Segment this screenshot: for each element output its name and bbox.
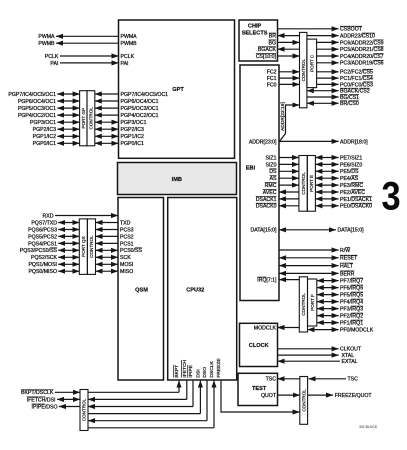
svg-text:PGP6/OC4/OC1: PGP6/OC4/OC1 [18, 99, 56, 105]
wire FC1 [279, 77, 300, 79]
svg-text:TEST: TEST [252, 386, 267, 392]
block CLOCK [240, 323, 278, 366]
wire PQS3/PCS0/SS PORT QS to QSM [96, 249, 119, 251]
pin label PC0/FC0/CS3 (external) [340, 82, 373, 88]
wire AS EBI to PORT E control [279, 177, 299, 179]
svg-text:PF3/IRQ3: PF3/IRQ3 [340, 307, 363, 313]
pin label PF1/IRQ1 (external) [340, 320, 363, 326]
wire BG/CS1 [307, 96, 339, 98]
svg-text:EBI: EBI [246, 166, 256, 172]
pin label DS (EBI) [269, 169, 277, 175]
pin label PC5/ADDR21/CS8 (external) [340, 47, 384, 53]
wire PC5/ADDR21/CS8 [317, 48, 339, 50]
block CPU32 [168, 198, 237, 381]
wire TSC external to control [309, 378, 346, 380]
svg-text:PGP3/OC1: PGP3/OC1 [30, 120, 56, 126]
pin label CS[10:0] (chip selects) [256, 54, 277, 60]
block IMB (inter-module bus) [118, 163, 237, 195]
pin label BKPT (CPU32, rotated) [174, 365, 180, 378]
svg-text:PQS1/MOSI: PQS1/MOSI [28, 262, 57, 268]
svg-text:PC4/ADDR20/CS7: PC4/ADDR20/CS7 [340, 54, 384, 60]
wire IPIPE stub into CPU32 [192, 381, 194, 407]
svg-text:PC0/FC0/CS3: PC0/FC0/CS3 [340, 82, 373, 88]
svg-text:CLKOUT: CLKOUT [340, 347, 362, 353]
svg-text:IMB: IMB [172, 177, 182, 183]
svg-text:SCK: SCK [120, 255, 131, 261]
pin label BGACK (chip selects) [258, 47, 277, 53]
svg-text:PF6/IRQ6: PF6/IRQ6 [340, 286, 363, 292]
wire PF7/IRQ7 [317, 280, 339, 282]
wire CSBOOT [278, 28, 339, 30]
svg-text:3: 3 [382, 173, 401, 218]
wire BGACK [278, 48, 300, 50]
svg-text:PQS2/SCK: PQS2/SCK [31, 255, 57, 261]
svg-text:PWMA: PWMA [121, 34, 138, 40]
wire DSCLK stub into CPU32 [213, 381, 215, 428]
svg-text:CONTROL: CONTROL [301, 293, 306, 316]
pin label HALT (external) [340, 263, 354, 269]
svg-text:IFETCH/DSI: IFETCH/DSI [27, 397, 56, 403]
svg-text:BERR: BERR [340, 271, 355, 277]
wire FREEZE/QUOT out [308, 394, 333, 396]
wire PGP3/OC1 PORT GP to GPT [95, 121, 119, 123]
svg-text:IPIPE: IPIPE [188, 364, 194, 377]
svg-text:CONTROL: CONTROL [89, 235, 94, 258]
svg-text:PCS0/SS: PCS0/SS [120, 248, 142, 254]
wire BKPT horizontal run [88, 391, 179, 393]
wire IFETCH horizontal run [88, 398, 187, 400]
svg-text:PQS3/PCS0/SS: PQS3/PCS0/SS [20, 248, 58, 254]
wire PC4/ADDR20/CS7 [317, 55, 339, 57]
svg-text:DSACK1: DSACK1 [256, 197, 277, 203]
block PORT F [308, 279, 317, 326]
svg-text:PE5/DS: PE5/DS [340, 169, 359, 175]
wire BKPT/DSCLK to BDM CONTROL [55, 391, 80, 393]
wire PWMA [56, 35, 119, 37]
svg-text:PWMB: PWMB [38, 41, 55, 47]
svg-text:PCLK: PCLK [121, 54, 135, 60]
pin label PQS3/PCS0/SS (external) [20, 248, 58, 254]
pin label BG (chip selects) [269, 40, 277, 46]
pin label BR/CS0 (external) [340, 101, 359, 107]
svg-text:XTAL: XTAL [342, 353, 355, 359]
wire DSI stub into CPU32 [199, 381, 201, 414]
svg-text:PF7/IRQ7: PF7/IRQ7 [340, 279, 363, 285]
svg-text:PF2/IRQ2: PF2/IRQ2 [340, 314, 363, 320]
label PORT C (rotated) [309, 54, 314, 72]
wire RXD to QSM [55, 215, 118, 217]
pin label PC2/FC2/CS5 (external) [340, 69, 373, 75]
svg-text:PCS2: PCS2 [120, 234, 134, 240]
svg-text:TSC: TSC [348, 377, 359, 383]
wire PC0/FC0/CS3 [317, 83, 339, 85]
svg-text:PGP7/IC4/OC5/OC1: PGP7/IC4/OC5/OC1 [121, 92, 169, 98]
svg-text:QSM: QSM [135, 288, 148, 294]
svg-text:PQS7/TXD: PQS7/TXD [31, 220, 57, 226]
wire PQS0/MISO PORT QS to QSM [96, 270, 119, 272]
wire IPIPE/DSO from BDM CONTROL [59, 406, 80, 408]
svg-text:PE0/DSACK0: PE0/DSACK0 [340, 204, 372, 210]
pin label PQS3/PCS0/SS (QSM) [120, 248, 142, 254]
wire PQS6/PCS3 to PORT QS [58, 229, 79, 231]
svg-text:PE7/SIZ1: PE7/SIZ1 [340, 155, 362, 161]
block EBI (external bus interface) [240, 65, 279, 301]
wire DSCLK horizontal run [88, 427, 214, 429]
wire PF1/IRQ1 [317, 322, 339, 324]
label PORT F (rotated) [310, 294, 315, 311]
svg-text:PC6/ADDR22/CS9: PC6/ADDR22/CS9 [340, 40, 384, 46]
svg-text:PGP7/IC4/OC5/OC1: PGP7/IC4/OC5/OC1 [8, 92, 56, 98]
block PORT E CONTROL [299, 156, 307, 212]
pin label IPIPE/DSO (external) [32, 404, 58, 410]
svg-text:PQS5/PCS2: PQS5/PCS2 [28, 234, 57, 240]
wire ADDR[18:0] bus out [279, 140, 339, 142]
wire HALT [279, 265, 339, 267]
wire PC1/FC1/CS4 [317, 77, 339, 79]
svg-text:BG/CS1: BG/CS1 [340, 95, 359, 101]
pin label BG/CS1 (external) [340, 95, 359, 101]
svg-text:PGP3/OC1: PGP3/OC1 [121, 120, 147, 126]
svg-text:SIZ1: SIZ1 [266, 155, 277, 161]
svg-text:HALT: HALT [340, 264, 354, 270]
wire PGP3/OC1 to PORT GP [57, 121, 79, 123]
svg-text:CLOCK: CLOCK [249, 343, 269, 349]
pin label DSACK0 (EBI) [256, 203, 277, 209]
svg-text:PE1/DSACK1: PE1/DSACK1 [340, 197, 372, 203]
pin label IRQ[7:1] (EBI) [257, 277, 277, 283]
wire XTAL [278, 354, 339, 356]
wire PAI [60, 62, 119, 64]
block PORT GP CONTROL [87, 91, 95, 146]
wire PF0/MODCLK [308, 329, 339, 331]
svg-text:PCS3: PCS3 [120, 227, 134, 233]
wire IFETCH/DSI to BDM CONTROL [57, 398, 80, 400]
pin label PF6/IRQ6 (external) [340, 285, 363, 291]
wire FC2 [279, 71, 300, 73]
svg-text:PGP0/IC1: PGP0/IC1 [121, 141, 144, 147]
svg-text:PC3/ADDR19/CS6: PC3/ADDR19/CS6 [340, 61, 384, 67]
wire QUOT to control [278, 394, 300, 396]
svg-text:PGP6/OC4/OC1: PGP6/OC4/OC1 [121, 99, 159, 105]
svg-text:PGP0/IC1: PGP0/IC1 [33, 141, 56, 147]
svg-text:CSBOOT: CSBOOT [340, 27, 363, 33]
wire SIZ0 EBI to PORT E control [279, 163, 299, 165]
wire PF6/IRQ6 [317, 287, 339, 289]
svg-text:TSC: TSC [266, 377, 277, 383]
label PORT GP (rotated) [81, 108, 86, 129]
wire PE0/DSACK0 [315, 205, 338, 207]
svg-text:PGP4/OC2/OC1: PGP4/OC2/OC1 [18, 113, 56, 119]
wire PWMB [56, 42, 119, 44]
wire FC0 [279, 83, 300, 85]
label CONTROL of PORT F (rotated) [301, 293, 306, 316]
svg-text:CONTROL: CONTROL [301, 58, 306, 81]
svg-text:DATA[15:0]: DATA[15:0] [338, 228, 365, 234]
svg-text:RXD: RXD [43, 213, 54, 219]
pin label PC3/ADDR19/CS6 (external) [340, 60, 384, 66]
pin label PF4/IRQ4 (external) [340, 299, 363, 305]
svg-text:PE2/AVEC: PE2/AVEC [340, 190, 365, 196]
svg-text:PORT E: PORT E [309, 175, 314, 192]
svg-text:CONTROL: CONTROL [89, 107, 94, 130]
svg-text:IRQ[7:1]: IRQ[7:1] [257, 278, 277, 284]
wire RESET [279, 257, 339, 259]
svg-text:ADDR[23:0]: ADDR[23:0] [249, 139, 277, 145]
pin label R/W (external) [340, 248, 350, 254]
svg-text:BR: BR [269, 34, 276, 40]
svg-text:PE6/SIZ0: PE6/SIZ0 [340, 162, 362, 168]
svg-text:CPU32: CPU32 [186, 288, 204, 294]
wire PGP7/IC4/OC5/OC1 PORT GP to GPT [95, 93, 119, 95]
wire PF2/IRQ2 [317, 315, 339, 317]
pin label DSACK1 (EBI) [256, 196, 277, 202]
wire PC6/ADDR22/CS9 [317, 41, 339, 43]
wire PQS0/MISO to PORT QS [58, 270, 79, 272]
svg-text:PGP5/OC3/OC1: PGP5/OC3/OC1 [121, 106, 159, 112]
wire PGP5/OC3/OC1 PORT GP to GPT [95, 107, 119, 109]
svg-text:PQS4/PCS1: PQS4/PCS1 [28, 241, 57, 247]
block PORT C CONTROL [300, 32, 307, 107]
svg-text:BKPT/DSCLK: BKPT/DSCLK [21, 390, 54, 396]
wire PE4/AS [315, 177, 338, 179]
svg-text:BGACK: BGACK [258, 47, 277, 53]
block GPT (general purpose timer) [119, 20, 235, 158]
wire DSACK0 PORT E control to EBI [279, 205, 299, 207]
svg-text:DSACK0: DSACK0 [256, 204, 277, 210]
wire PQS4/PCS1 to PORT QS [58, 242, 79, 244]
wire PGP0/IC1 to PORT GP [57, 142, 79, 144]
svg-text:PGP4/OC2/OC1: PGP4/OC2/OC1 [121, 113, 159, 119]
svg-text:CONTROL: CONTROL [82, 398, 87, 421]
wire IFETCH stub into CPU32 [186, 381, 188, 400]
svg-text:RMC: RMC [265, 183, 277, 189]
svg-text:PAI: PAI [121, 61, 129, 67]
label CONTROL of PORT GP (rotated) [89, 107, 94, 130]
block PORT C [307, 39, 317, 88]
pin label PF2/IRQ2 (external) [340, 313, 363, 319]
svg-text:PC1/FC1/CS4: PC1/FC1/CS4 [340, 76, 373, 82]
wire DSI horizontal run [88, 413, 200, 415]
wire PE7/SIZ1 [315, 157, 338, 159]
svg-text:QUOT: QUOT [261, 393, 277, 399]
wire PQS1/MOSI to PORT QS [58, 263, 79, 265]
wire DSO stub into CPU32 [206, 381, 208, 421]
svg-text:IPIPE/DSO: IPIPE/DSO [32, 404, 58, 410]
wire PQS3/PCS0/SS to PORT QS [58, 249, 79, 251]
svg-text:PQS0/MISO: PQS0/MISO [28, 269, 57, 275]
wire DS EBI to PORT E control [279, 170, 299, 172]
svg-text:MISO: MISO [120, 269, 133, 275]
wire PE5/DS [315, 170, 338, 172]
wire PQS5/PCS2 to PORT QS [58, 235, 79, 237]
label PORT E (rotated) [309, 175, 314, 192]
svg-text:GPT: GPT [172, 87, 184, 93]
block BDM CONTROL [80, 390, 88, 431]
svg-text:FC0: FC0 [267, 82, 277, 88]
wire CS[10:0] [278, 55, 300, 57]
svg-text:BR/CS0: BR/CS0 [340, 101, 359, 107]
wire PQS6/PCS3 PORT QS to QSM [96, 229, 119, 231]
wire MODCLK from PORT F control [278, 327, 300, 329]
wire PGP5/OC3/OC1 to PORT GP [57, 107, 79, 109]
svg-text:PWMA: PWMA [38, 34, 55, 40]
svg-text:PE3/RMC: PE3/RMC [340, 183, 363, 189]
pin label PC6/ADDR22/CS9 (external) [340, 40, 384, 46]
svg-text:DSI: DSI [196, 369, 202, 377]
svg-text:AS: AS [270, 176, 277, 182]
wire PC2/FC2/CS5 [317, 71, 339, 73]
pin label PC4/ADDR20/CS7 (external) [340, 54, 384, 60]
svg-text:PGP1/IC2: PGP1/IC2 [121, 134, 144, 140]
wire DSO horizontal run [88, 420, 207, 422]
label PORT QS (rotated) [81, 236, 86, 257]
svg-text:DSO: DSO [202, 367, 208, 378]
svg-text:R/W: R/W [340, 248, 350, 254]
wire PE1/DSACK1 [315, 198, 338, 200]
svg-text:DATA[15:0]: DATA[15:0] [250, 228, 277, 234]
wire PF4/IRQ4 [317, 301, 339, 303]
wire PGP4/OC2/OC1 PORT GP to GPT [95, 114, 119, 116]
svg-text:AVEC: AVEC [263, 190, 277, 196]
wire PQS7/TXD to PORT QS [58, 222, 79, 224]
svg-text:PORT F: PORT F [310, 294, 315, 311]
svg-text:PF5/IRQ5: PF5/IRQ5 [340, 293, 363, 299]
wire PQS7/TXD PORT QS to QSM [96, 222, 119, 224]
pin label BR (chip selects) [269, 33, 276, 39]
wire PGP4/OC2/OC1 to PORT GP [57, 114, 79, 116]
wire ADDR23/CS10 [307, 35, 339, 37]
wire IRQ[7:1] to PORT F control [279, 279, 299, 281]
svg-text:PORT QS: PORT QS [81, 236, 86, 257]
svg-text:PF1/IRQ1: PF1/IRQ1 [340, 321, 363, 327]
svg-text:CONTROL: CONTROL [301, 389, 306, 412]
svg-text:PORT C: PORT C [309, 54, 314, 72]
wire RMC EBI to PORT E control [279, 184, 299, 186]
svg-text:ADDR[18:0]: ADDR[18:0] [340, 139, 368, 145]
pin label AVEC (EBI) [263, 190, 277, 196]
svg-text:MOSI: MOSI [120, 262, 133, 268]
pin label RESET (external) [340, 255, 358, 261]
pin label IPIPE (CPU32, rotated) [188, 364, 194, 377]
block TEST CONTROL [300, 377, 308, 425]
wire PE3/RMC [315, 184, 338, 186]
svg-text:332 BLOCK: 332 BLOCK [359, 425, 378, 429]
pin label AS (EBI) [270, 176, 277, 182]
svg-text:FC1: FC1 [267, 76, 277, 82]
wire BERR [279, 272, 339, 274]
svg-text:PGP2/IC3: PGP2/IC3 [121, 127, 144, 133]
wire PQS1/MOSI PORT QS to QSM [96, 263, 119, 265]
block PORT GP [80, 91, 87, 146]
pin label PF7/IRQ7 (external) [340, 278, 363, 284]
pin label PE3/RMC (external) [340, 183, 363, 189]
svg-text:CS[10:0]: CS[10:0] [256, 54, 277, 60]
pin label PF3/IRQ3 (external) [340, 306, 363, 312]
wire PGP2/IC3 PORT GP to GPT [95, 128, 119, 130]
pin label RMC (EBI) [265, 183, 277, 189]
wire PE2/AVEC [315, 191, 338, 193]
block TEST [238, 373, 278, 405]
svg-text:DSCLK: DSCLK [209, 361, 215, 378]
label TEST CONTROL (rotated) [301, 389, 306, 412]
wire DSACK1 PORT E control to EBI [279, 198, 299, 200]
svg-text:CONTROL: CONTROL [301, 172, 306, 195]
svg-text:PGP1/IC2: PGP1/IC2 [33, 134, 56, 140]
label CONTROL of PORT E (rotated) [301, 172, 306, 195]
pin label PE5/DS (external) [340, 169, 359, 175]
wire PF5/IRQ5 [317, 294, 339, 296]
wire PE6/SIZ0 [315, 163, 338, 165]
wire PQS5/PCS2 PORT QS to QSM [96, 235, 119, 237]
wire PQS4/PCS1 PORT QS to QSM [96, 242, 119, 244]
svg-text:PORT GP: PORT GP [81, 108, 86, 129]
wire AVEC PORT E control to EBI [279, 191, 299, 193]
wire BR [278, 35, 300, 37]
wire TSC control to TEST [278, 378, 300, 380]
svg-text:MODCLK: MODCLK [254, 325, 277, 331]
svg-text:IFETCH: IFETCH [182, 359, 188, 377]
pin label BERR (external) [340, 271, 355, 277]
pin label IFETCH (CPU32, rotated) [182, 359, 188, 377]
wire IPIPE horizontal run [88, 406, 193, 408]
wire PGP0/IC1 PORT GP to GPT [95, 142, 119, 144]
block QSM (queued serial module) [118, 198, 164, 381]
svg-text:ADDR23/CS10: ADDR23/CS10 [340, 34, 375, 40]
pin label BKPT/DSCLK (external) [21, 390, 54, 396]
wire BGACK/CS2 [307, 90, 339, 92]
svg-text:DS: DS [269, 169, 277, 175]
svg-text:PC2/FC2/CS5: PC2/FC2/CS5 [340, 70, 373, 76]
wire FREEZE from CPU32 to TEST CONTROL [221, 381, 300, 412]
block PORT QS [79, 219, 87, 275]
svg-text:PC5/ADDR21/CS8: PC5/ADDR21/CS8 [340, 47, 384, 53]
pin label PC1/FC1/CS4 (external) [340, 76, 373, 82]
pin label PE4/AS (external) [340, 176, 359, 182]
pin label PE1/DSACK1 (external) [340, 196, 372, 202]
label CONTROL of PORT QS (rotated) [89, 235, 94, 258]
svg-text:PGP5/OC3/OC1: PGP5/OC3/OC1 [18, 106, 56, 112]
block PORT F CONTROL [299, 277, 307, 332]
svg-text:TXD: TXD [120, 220, 131, 226]
wire PGP1/IC2 PORT GP to GPT [95, 135, 119, 137]
pin label PE2/AVEC (external) [340, 190, 365, 196]
wire PGP1/IC2 to PORT GP [57, 135, 79, 137]
svg-text:SELECTS: SELECTS [242, 30, 268, 36]
wire PF3/IRQ3 [317, 308, 339, 310]
wire EXTAL [278, 360, 341, 362]
svg-text:PCS1: PCS1 [120, 241, 134, 247]
svg-text:BG: BG [269, 40, 277, 46]
pin label BGACK/CS2 (external) [340, 88, 370, 94]
svg-text:BGACK/CS2: BGACK/CS2 [340, 89, 370, 95]
svg-text:PF4/IRQ4: PF4/IRQ4 [340, 300, 363, 306]
svg-text:FC2: FC2 [267, 70, 277, 76]
svg-text:RESET: RESET [340, 256, 358, 262]
wire BKPT stub into CPU32 [178, 381, 180, 393]
pin label ADDR23/CS10 (external) [340, 33, 375, 39]
block PORT E [307, 156, 315, 212]
wire PGP7/IC4/OC5/OC1 to PORT GP [57, 93, 79, 95]
wire PQS2/SCK PORT QS to QSM [96, 256, 119, 258]
svg-text:FREEZE: FREEZE [216, 358, 222, 378]
wire SIZ1 EBI to PORT E control [279, 157, 299, 159]
pin label IFETCH/DSI (external) [27, 397, 56, 403]
svg-text:EXTAL: EXTAL [342, 359, 358, 365]
svg-text:PAI: PAI [50, 61, 58, 67]
wire PC3/ADDR19/CS6 [317, 62, 339, 64]
label BDM CONTROL (rotated) [82, 398, 87, 421]
wire PCLK [60, 55, 119, 57]
